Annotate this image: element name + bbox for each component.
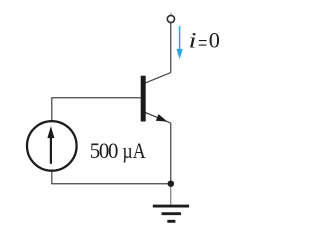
svg-text:=: =	[198, 31, 207, 56]
current arrow i (blue) shaft	[179, 26, 181, 49]
junction dot	[168, 180, 175, 187]
wire: collector diagonal	[145, 73, 170, 83]
label 500 uA	[90, 138, 146, 163]
wire: terminal top stub	[170, 13, 172, 16]
current source I1 arrowhead	[47, 126, 54, 138]
current source I1 arrow shaft	[50, 137, 52, 164]
current source I1 circle	[27, 121, 77, 171]
wire: emitter vertical	[170, 123, 172, 184]
ground bar 1	[153, 205, 189, 208]
svg-text:0: 0	[209, 28, 220, 53]
wire: collector stem from terminal	[170, 23, 172, 72]
ground bar 2	[162, 212, 181, 215]
wire: emitter diagonal	[145, 113, 170, 124]
wire: ground stem	[170, 184, 172, 205]
svg-text:µA: µA	[122, 139, 146, 163]
svg-text:i: i	[189, 28, 197, 53]
ground bar 3	[167, 220, 175, 223]
current arrow i (blue) head	[177, 49, 183, 60]
wire: bottom horizontal	[52, 183, 171, 185]
wire: bottom-left vertical from current source	[51, 171, 53, 184]
wire: base lead	[52, 97, 141, 99]
wire: top-left vertical into current source	[51, 97, 53, 120]
svg-text:500: 500	[90, 138, 118, 163]
transistor Q1 emitter arrowhead	[156, 114, 168, 122]
label i = 0	[189, 28, 220, 56]
node: open terminal circle	[167, 15, 174, 22]
transistor Q1 base bar	[141, 76, 146, 122]
